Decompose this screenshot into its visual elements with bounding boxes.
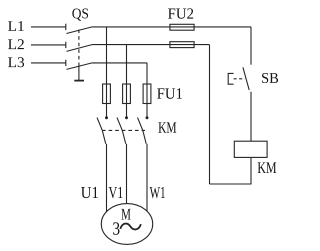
switch QS pole 3 fixed contact <box>65 60 67 66</box>
wire phase C drop <box>146 63 148 117</box>
switch QS handle stem <box>78 66 80 80</box>
fuse FU1 body 1 <box>103 84 111 104</box>
coil KM body <box>234 141 267 157</box>
switch QS pole 3 blade <box>67 63 93 70</box>
wire L2 input <box>31 44 66 46</box>
label L2 <box>8 39 24 49</box>
pushbutton SB actuator dashed link <box>234 78 245 80</box>
label SB <box>262 73 278 83</box>
wire phase A drop <box>106 27 108 117</box>
switch QS linkage dashed <box>78 30 80 67</box>
wire control bottom horizontal <box>210 183 252 185</box>
switch QS pole 2 blade <box>67 45 93 52</box>
label FU1 <box>157 88 182 99</box>
wire SB to coil <box>250 92 252 142</box>
wire control return vertical <box>209 45 211 184</box>
label W1 <box>150 187 165 198</box>
label QS <box>72 9 88 21</box>
motor letter M <box>121 209 130 220</box>
fuse FU1 body 2 <box>123 84 131 104</box>
label KM contacts <box>158 122 176 132</box>
motor tilde symbol <box>120 224 141 230</box>
label U1 <box>81 187 98 198</box>
pushbutton SB blade <box>243 67 249 90</box>
switch QS pole 1 fixed contact <box>65 24 67 30</box>
wire motor lead U <box>106 144 108 212</box>
contactor KM contact 3 dot <box>146 117 148 119</box>
fuse FU2 upper body <box>170 24 194 30</box>
contactor KM contact 1 blade <box>97 118 106 144</box>
fuse FU1 body 3 <box>143 84 151 104</box>
label FU2 <box>168 8 193 18</box>
switch QS handle bar <box>74 80 84 82</box>
wire control drop to SB <box>250 27 252 65</box>
switch QS pole 2 fixed contact <box>65 42 67 48</box>
pushbutton SB actuator bracket <box>228 73 233 84</box>
label L3 <box>8 57 24 67</box>
wire L1 from QS through FU2 to right corner <box>92 26 251 28</box>
fuse FU2 lower body <box>170 42 194 48</box>
contactor KM contact 1 dot <box>106 117 108 119</box>
contactor KM contact 2 dot <box>126 117 128 119</box>
contactor KM contact 3 blade <box>138 118 147 144</box>
label KM coil <box>258 162 277 173</box>
contactor KM contact 2 blade <box>117 118 126 144</box>
contactor KM linkage dashed <box>102 129 145 131</box>
wire coil to bottom <box>250 157 252 184</box>
label V1 <box>109 187 123 198</box>
wire L3 from QS to corner <box>92 62 147 64</box>
wire L3 input <box>31 62 66 64</box>
wire L1 input <box>31 26 66 28</box>
wire motor lead V <box>126 144 128 204</box>
motor M circle <box>101 204 152 245</box>
wire L2 from QS through FU2 to corner <box>92 44 210 46</box>
switch QS pole 1 blade <box>67 27 93 34</box>
motor label 3 <box>113 222 119 234</box>
label L1 <box>8 21 24 31</box>
wire phase B drop <box>126 45 128 118</box>
wire motor lead W <box>146 144 148 211</box>
